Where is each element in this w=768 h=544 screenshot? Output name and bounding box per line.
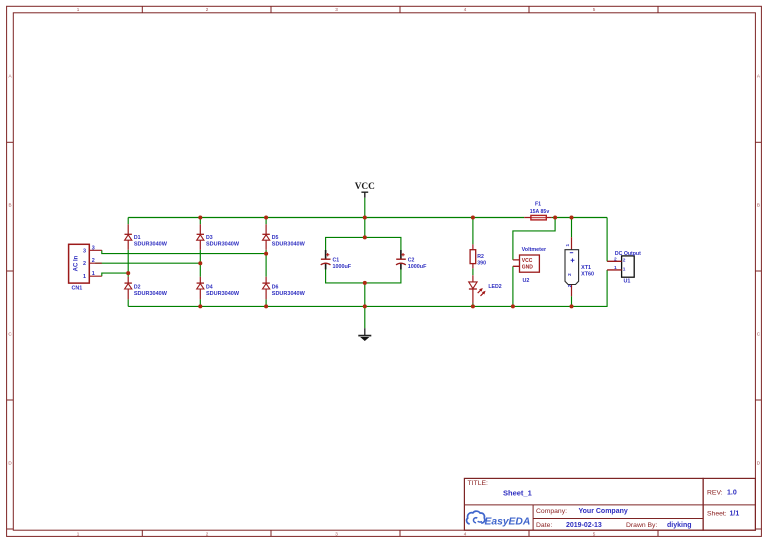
connector XT1 <box>565 237 594 296</box>
fuse F1 <box>524 202 551 220</box>
svg-text:4: 4 <box>464 7 467 12</box>
svg-text:1: 1 <box>83 274 86 280</box>
svg-text:3: 3 <box>335 531 338 536</box>
EasyEDA logo <box>467 511 531 527</box>
wire top rail right <box>552 217 608 219</box>
diode D3 <box>197 224 240 250</box>
svg-text:3: 3 <box>92 245 95 251</box>
svg-text:3: 3 <box>83 248 86 254</box>
svg-text:2: 2 <box>206 7 209 12</box>
junction D4 bottom rail <box>198 304 202 308</box>
D3 anode triangle <box>197 235 204 240</box>
diode D2 <box>125 277 168 300</box>
svg-text:VCC: VCC <box>355 182 375 192</box>
wire R2 top <box>472 218 474 245</box>
D5 pin stubs <box>265 224 267 250</box>
diode D1 <box>125 224 168 250</box>
D1 cathode bar <box>125 233 132 235</box>
title block frame <box>464 478 755 530</box>
svg-text:2: 2 <box>92 258 95 264</box>
LED2 pin stubs <box>472 275 474 303</box>
svg-text:SDUR3040W: SDUR3040W <box>134 241 168 247</box>
svg-text:GND: GND <box>522 265 534 271</box>
svg-text:A: A <box>8 74 12 79</box>
ground <box>358 328 371 341</box>
svg-text:SDUR3040W: SDUR3040W <box>206 241 240 247</box>
XT1 plus mark <box>571 258 575 262</box>
svg-text:TITLE:: TITLE: <box>468 480 489 487</box>
U1 body <box>622 256 635 277</box>
svg-text:SDUR3040W: SDUR3040W <box>272 291 306 297</box>
wire voltmeter GND net <box>512 266 514 307</box>
LED2 emission arrows <box>476 287 486 297</box>
D3 pin stubs <box>199 224 201 250</box>
R2 body <box>470 250 476 264</box>
wire bottom rail <box>128 305 607 307</box>
wire top rail left <box>128 217 524 219</box>
svg-text:SDUR3040W: SDUR3040W <box>272 241 306 247</box>
ground triangle <box>360 337 369 341</box>
U2 body <box>520 255 540 272</box>
svg-text:Your Company: Your Company <box>579 508 628 515</box>
svg-text:1: 1 <box>614 265 617 271</box>
D6 cathode bar <box>262 282 269 284</box>
power flag VCC <box>355 182 375 198</box>
svg-text:1: 1 <box>92 271 95 277</box>
svg-text:D4: D4 <box>206 285 213 291</box>
ground bar <box>358 335 371 337</box>
svg-text:5: 5 <box>593 531 596 536</box>
wire ground feed <box>364 283 366 328</box>
junction U2 GND bottom rail <box>511 304 515 308</box>
svg-text:2: 2 <box>567 284 572 287</box>
resistor R2 <box>470 244 486 268</box>
svg-text:VCC: VCC <box>522 258 533 264</box>
D4 anode triangle <box>197 284 204 289</box>
wire R2 to LED2 <box>472 268 474 275</box>
svg-text:U2: U2 <box>523 278 530 284</box>
C2 polarity plus sign <box>401 253 404 256</box>
C2 curved negative plate <box>396 263 406 265</box>
F1 element line <box>531 217 546 219</box>
svg-text:A: A <box>757 74 761 79</box>
capacitor C2 <box>396 250 427 270</box>
C2 bottom pin <box>400 264 402 270</box>
connector CN1 <box>69 244 102 291</box>
svg-text:Drawn By:: Drawn By: <box>626 522 657 529</box>
CN1 body <box>69 244 90 283</box>
svg-text:Sheet_1: Sheet_1 <box>503 489 532 498</box>
svg-text:D1: D1 <box>134 235 141 241</box>
svg-text:1/1: 1/1 <box>730 511 740 518</box>
svg-text:LED2: LED2 <box>488 284 501 290</box>
svg-text:2: 2 <box>567 273 572 276</box>
wire U1 pin2 net <box>606 218 608 262</box>
LED2 cathode bar <box>469 288 477 290</box>
svg-text:15A 85v: 15A 85v <box>530 209 550 215</box>
svg-text:EasyEDA: EasyEDA <box>485 516 531 527</box>
zone numbers bottom <box>77 531 596 536</box>
junction LED2 bottom rail <box>471 304 475 308</box>
svg-text:D: D <box>757 461 761 466</box>
svg-text:U1: U1 <box>624 279 631 285</box>
junction D5 top rail <box>264 216 268 220</box>
C1 curved negative plate <box>321 263 331 265</box>
U1 pin stubs 2,1 <box>607 261 622 270</box>
svg-text:1: 1 <box>565 244 570 247</box>
zone letters left <box>8 74 12 466</box>
svg-text:D2: D2 <box>134 285 141 291</box>
wire bridge column 3 <box>265 218 267 307</box>
wire XT1 top <box>571 218 573 238</box>
wire bridge column 2 <box>199 218 201 307</box>
svg-text:F1: F1 <box>535 202 541 208</box>
D4 cathode bar <box>197 282 204 284</box>
svg-text:C2: C2 <box>408 257 415 263</box>
junction VCC top rail <box>363 216 367 220</box>
XT1 body <box>565 250 579 285</box>
D5 cathode bar <box>262 233 269 235</box>
F1 body <box>531 215 546 220</box>
zone letters right <box>757 74 761 466</box>
D6 pin stubs <box>265 277 267 300</box>
voltmeter U2 <box>513 247 547 284</box>
svg-text:SDUR3040W: SDUR3040W <box>206 291 240 297</box>
U2 pin stubs VCC,GND <box>513 260 520 266</box>
C2 top pin <box>400 250 402 259</box>
wire U1 pin1 net <box>606 270 608 307</box>
svg-text:C1: C1 <box>333 257 340 263</box>
svg-text:1000uF: 1000uF <box>333 264 352 270</box>
junction XT1 top rail <box>570 216 574 220</box>
svg-text:2019-02-13: 2019-02-13 <box>566 522 602 529</box>
junction dot node pin2 <box>198 261 202 265</box>
CN1 pins 3,2,1 <box>89 250 102 276</box>
svg-text:Company:: Company: <box>536 508 567 515</box>
wire VCC feed <box>364 198 366 238</box>
svg-text:1: 1 <box>623 266 626 272</box>
svg-text:390: 390 <box>477 260 486 266</box>
svg-text:AC In: AC In <box>74 255 80 271</box>
wire capacitor loop <box>326 237 401 283</box>
wire CN1 pin2 net <box>95 262 200 264</box>
svg-text:C: C <box>8 332 12 337</box>
capacitor C1 <box>321 250 352 270</box>
svg-text:D3: D3 <box>206 235 213 241</box>
svg-text:REV:: REV: <box>707 490 723 497</box>
connector U1 DC Output <box>607 251 641 284</box>
svg-text:1.0: 1.0 <box>727 490 737 497</box>
svg-text:Voltmeter: Voltmeter <box>522 247 547 253</box>
svg-text:D6: D6 <box>272 285 279 291</box>
LED LED2 <box>469 275 502 303</box>
wire LED2 bottom <box>472 304 474 307</box>
D5 anode triangle <box>263 235 270 240</box>
svg-text:2: 2 <box>83 261 86 267</box>
diode D4 <box>197 277 240 300</box>
D1 anode triangle <box>125 235 132 240</box>
junction F1 output <box>553 216 557 220</box>
svg-text:3: 3 <box>335 7 338 12</box>
junction XT1 bottom rail <box>570 304 574 308</box>
D1 pin stubs <box>127 224 129 250</box>
wire CN1 pin1 net <box>102 273 128 276</box>
D2 anode triangle <box>125 284 132 289</box>
wire voltmeter VCC net <box>513 218 555 260</box>
C1 top pin <box>325 250 327 259</box>
svg-text:B: B <box>8 203 11 208</box>
junction dot node pin3 <box>264 252 268 256</box>
wire bridge column 1 <box>127 218 129 307</box>
svg-text:2: 2 <box>623 258 626 264</box>
junction dot cap loop bottom <box>363 281 367 285</box>
XT1 minus mark <box>570 252 573 254</box>
D3 cathode bar <box>197 233 204 235</box>
svg-text:XT1: XT1 <box>581 265 591 271</box>
ground stem <box>364 328 366 335</box>
svg-text:1000uF: 1000uF <box>408 264 427 270</box>
diode D6 <box>262 277 305 300</box>
svg-text:4: 4 <box>464 531 467 536</box>
D2 cathode bar <box>125 282 132 284</box>
svg-text:Sheet:: Sheet: <box>707 511 727 518</box>
C1 bottom pin <box>325 264 327 270</box>
D6 anode triangle <box>263 284 270 289</box>
svg-text:diyking: diyking <box>667 522 692 529</box>
svg-text:SDUR3040W: SDUR3040W <box>134 291 168 297</box>
R2 pin stubs <box>472 244 474 268</box>
svg-text:XT60: XT60 <box>581 271 594 277</box>
svg-text:5: 5 <box>593 7 596 12</box>
VCC symbol bar <box>361 192 368 198</box>
diode D5 <box>262 224 305 250</box>
junction R2 top rail <box>471 216 475 220</box>
svg-text:B: B <box>757 203 760 208</box>
junction D3 top rail <box>198 216 202 220</box>
svg-text:1: 1 <box>77 531 80 536</box>
svg-text:Date:: Date: <box>536 522 552 529</box>
svg-text:DC Output: DC Output <box>615 251 641 257</box>
svg-text:D: D <box>8 461 12 466</box>
D2 pin stubs <box>127 277 129 300</box>
svg-text:R2: R2 <box>477 254 484 260</box>
XT1 pin stubs <box>571 237 573 296</box>
svg-text:1: 1 <box>77 7 80 12</box>
junction ground bottom rail <box>363 304 367 308</box>
wire CN1 pin3 net <box>102 250 266 253</box>
C2 positive plate <box>396 258 406 260</box>
C1 polarity plus sign <box>326 253 329 256</box>
svg-text:C: C <box>757 332 761 337</box>
wire XT1 bottom <box>571 296 573 307</box>
LED2 anode triangle <box>469 282 477 289</box>
junction dot cap loop top <box>363 235 367 239</box>
svg-text:2: 2 <box>206 531 209 536</box>
F1 pin stubs <box>524 217 551 219</box>
svg-text:D5: D5 <box>272 235 279 241</box>
junction dot node pin1 <box>126 271 130 275</box>
C1 positive plate <box>321 258 331 260</box>
zone numbers top <box>77 7 596 12</box>
D4 pin stubs <box>199 277 201 300</box>
svg-text:CN1: CN1 <box>72 286 83 292</box>
junction D6 bottom rail <box>264 304 268 308</box>
